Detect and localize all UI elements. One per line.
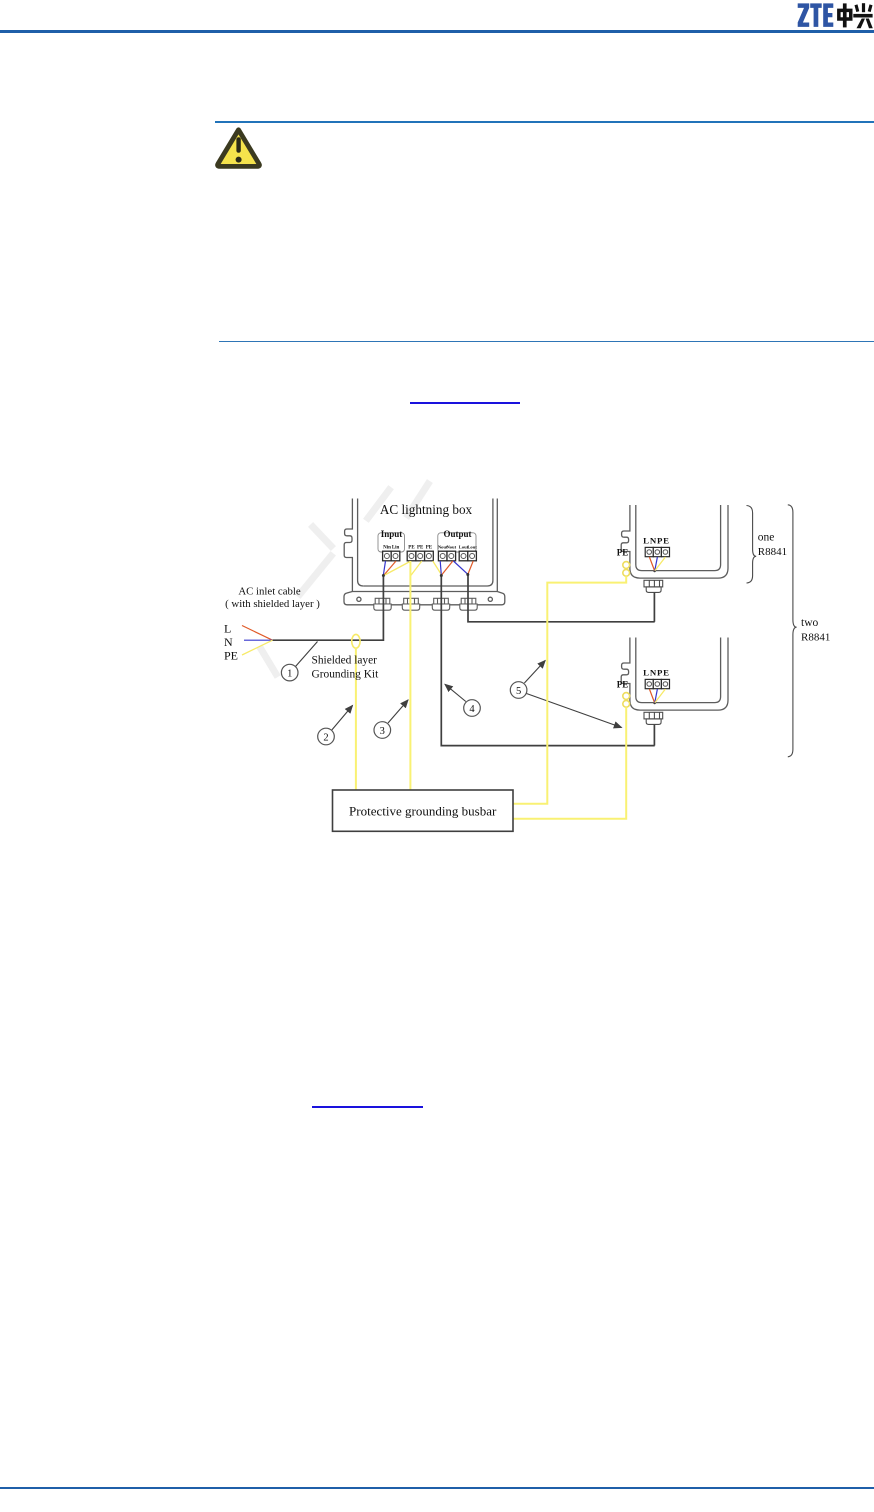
wire: PE3 jumper (yellow) bbox=[433, 561, 441, 574]
brace: one R8841 bbox=[747, 506, 757, 584]
protective grounding busbar box bbox=[333, 790, 514, 831]
PE rings (two) bbox=[623, 693, 630, 708]
wire: L (red) bbox=[242, 626, 273, 641]
enclosure R8841 one bbox=[621, 505, 728, 578]
wire: PE yellow (one) bbox=[655, 557, 665, 571]
enclosure R8841 two bbox=[621, 638, 728, 711]
wire: input N (blue) bbox=[383, 561, 385, 575]
callout 4 bbox=[445, 684, 480, 716]
wire: output L2 (red) bbox=[468, 561, 473, 574]
wire: N (blue) bbox=[244, 639, 273, 641]
svg-text:5: 5 bbox=[516, 686, 521, 697]
cable glands under AC lightning box bbox=[374, 598, 477, 610]
Output terminal group bbox=[438, 529, 477, 561]
cable connector (two) bbox=[644, 712, 663, 724]
screw hole left bbox=[357, 597, 361, 601]
svg-text:two: two bbox=[801, 617, 819, 629]
wire: PE to busbar (two, yellow) bbox=[513, 707, 626, 819]
svg-text:1: 1 bbox=[287, 669, 292, 680]
gland 2 bbox=[402, 598, 419, 610]
wire: output N2 (blue) bbox=[453, 561, 467, 574]
svg-text:Input: Input bbox=[381, 529, 403, 539]
Input terminal group bbox=[378, 529, 405, 561]
svg-text:3: 3 bbox=[380, 726, 385, 737]
section rule 1 bbox=[215, 121, 874, 123]
outer left wall with clip bbox=[344, 499, 352, 592]
cable connector (one) bbox=[644, 580, 663, 592]
wire: output N1 (blue) bbox=[440, 561, 441, 575]
svg-text:Shielded layer: Shielded layer bbox=[312, 655, 378, 667]
terminal block (one) bbox=[645, 547, 669, 556]
svg-text:2: 2 bbox=[323, 733, 328, 744]
svg-text:AC lightning box: AC lightning box bbox=[380, 502, 473, 517]
wire: grounding kit to busbar (yellow) bbox=[355, 648, 357, 790]
svg-text:PE: PE bbox=[617, 548, 629, 558]
inner left wall bbox=[358, 499, 364, 587]
hyperlink underline 1 bbox=[410, 402, 520, 404]
callout 1 bbox=[281, 642, 317, 681]
junction dots bbox=[382, 569, 656, 704]
svg-text:PE: PE bbox=[417, 546, 424, 551]
svg-text:Grounding Kit: Grounding Kit bbox=[312, 669, 380, 681]
gland 4 bbox=[460, 598, 477, 610]
wire: PE yellow (two) bbox=[655, 689, 665, 703]
wire: down lead (two) bbox=[653, 724, 655, 745]
svg-text:Protective grounding busbar: Protective grounding busbar bbox=[349, 804, 497, 819]
callout 3 bbox=[374, 700, 408, 738]
brace: two R8841 bbox=[788, 505, 797, 757]
wire: N blue (two) bbox=[655, 689, 658, 703]
inner right wall bbox=[363, 499, 493, 587]
watermark bbox=[261, 484, 428, 674]
gland 1 bbox=[374, 598, 391, 610]
wire: output feed to R8841 one (grey) bbox=[468, 574, 655, 622]
svg-text:LNPE: LNPE bbox=[643, 536, 670, 546]
svg-text:Nin: Nin bbox=[383, 546, 391, 551]
ZTE logo bbox=[0, 0, 874, 34]
callout 2 bbox=[318, 706, 353, 745]
screw hole right bbox=[488, 597, 492, 601]
svg-text:N: N bbox=[224, 635, 233, 649]
wire: input L (red) bbox=[384, 561, 396, 575]
svg-text:PE: PE bbox=[617, 680, 629, 690]
shielded layer grounding kit loop (yellow) bbox=[352, 634, 360, 648]
wire: PE to busbar (one, yellow) bbox=[513, 576, 626, 804]
warning triangle icon bbox=[211, 123, 267, 173]
svg-text:PE: PE bbox=[408, 546, 415, 551]
flange bbox=[344, 592, 505, 605]
footer rule bbox=[0, 1487, 874, 1490]
svg-text:( with shielded layer ): ( with shielded layer ) bbox=[225, 598, 320, 610]
wire: L red (two) bbox=[649, 689, 654, 703]
svg-text:LNPE: LNPE bbox=[643, 668, 670, 678]
section rule 2 bbox=[219, 341, 874, 343]
wire: PE to busbar (yellow vertical) bbox=[409, 561, 411, 790]
wire: down lead (one) bbox=[653, 592, 655, 621]
header rule bbox=[0, 30, 874, 33]
wire: N blue (one) bbox=[655, 557, 658, 571]
PE rings (one) bbox=[623, 562, 630, 577]
wire: PE2 jumper (yellow) bbox=[411, 561, 422, 576]
wire: inlet cable to input (grey) bbox=[273, 575, 384, 641]
PE terminal block bbox=[407, 546, 433, 561]
wire: output feed to R8841 two (grey) bbox=[441, 575, 654, 746]
callout 5 bbox=[510, 661, 621, 728]
svg-text:PE: PE bbox=[224, 649, 238, 663]
wire: PE (yellow) bbox=[242, 640, 273, 655]
svg-text:Lout: Lout bbox=[467, 545, 477, 550]
gland 3 bbox=[432, 598, 449, 610]
outer right wall bbox=[496, 499, 498, 592]
svg-text:AC inlet cable: AC inlet cable bbox=[238, 586, 301, 598]
AC lightning box enclosure bbox=[344, 499, 505, 605]
hyperlink underline 2 bbox=[312, 1106, 423, 1108]
svg-text:PE: PE bbox=[426, 546, 433, 551]
terminal block (two) bbox=[645, 679, 669, 688]
svg-text:Output: Output bbox=[443, 529, 471, 539]
svg-text:Nout: Nout bbox=[446, 545, 456, 550]
svg-text:R8841: R8841 bbox=[758, 546, 787, 558]
svg-text:4: 4 bbox=[469, 704, 475, 715]
svg-text:L: L bbox=[224, 622, 231, 636]
wire: output L1 (red) bbox=[442, 561, 453, 575]
svg-text:Lin: Lin bbox=[392, 546, 400, 551]
wire: L red (one) bbox=[649, 557, 654, 571]
wire: input PE jumper (yellow) bbox=[384, 562, 410, 576]
svg-text:R8841: R8841 bbox=[801, 632, 830, 644]
svg-text:one: one bbox=[758, 532, 775, 544]
